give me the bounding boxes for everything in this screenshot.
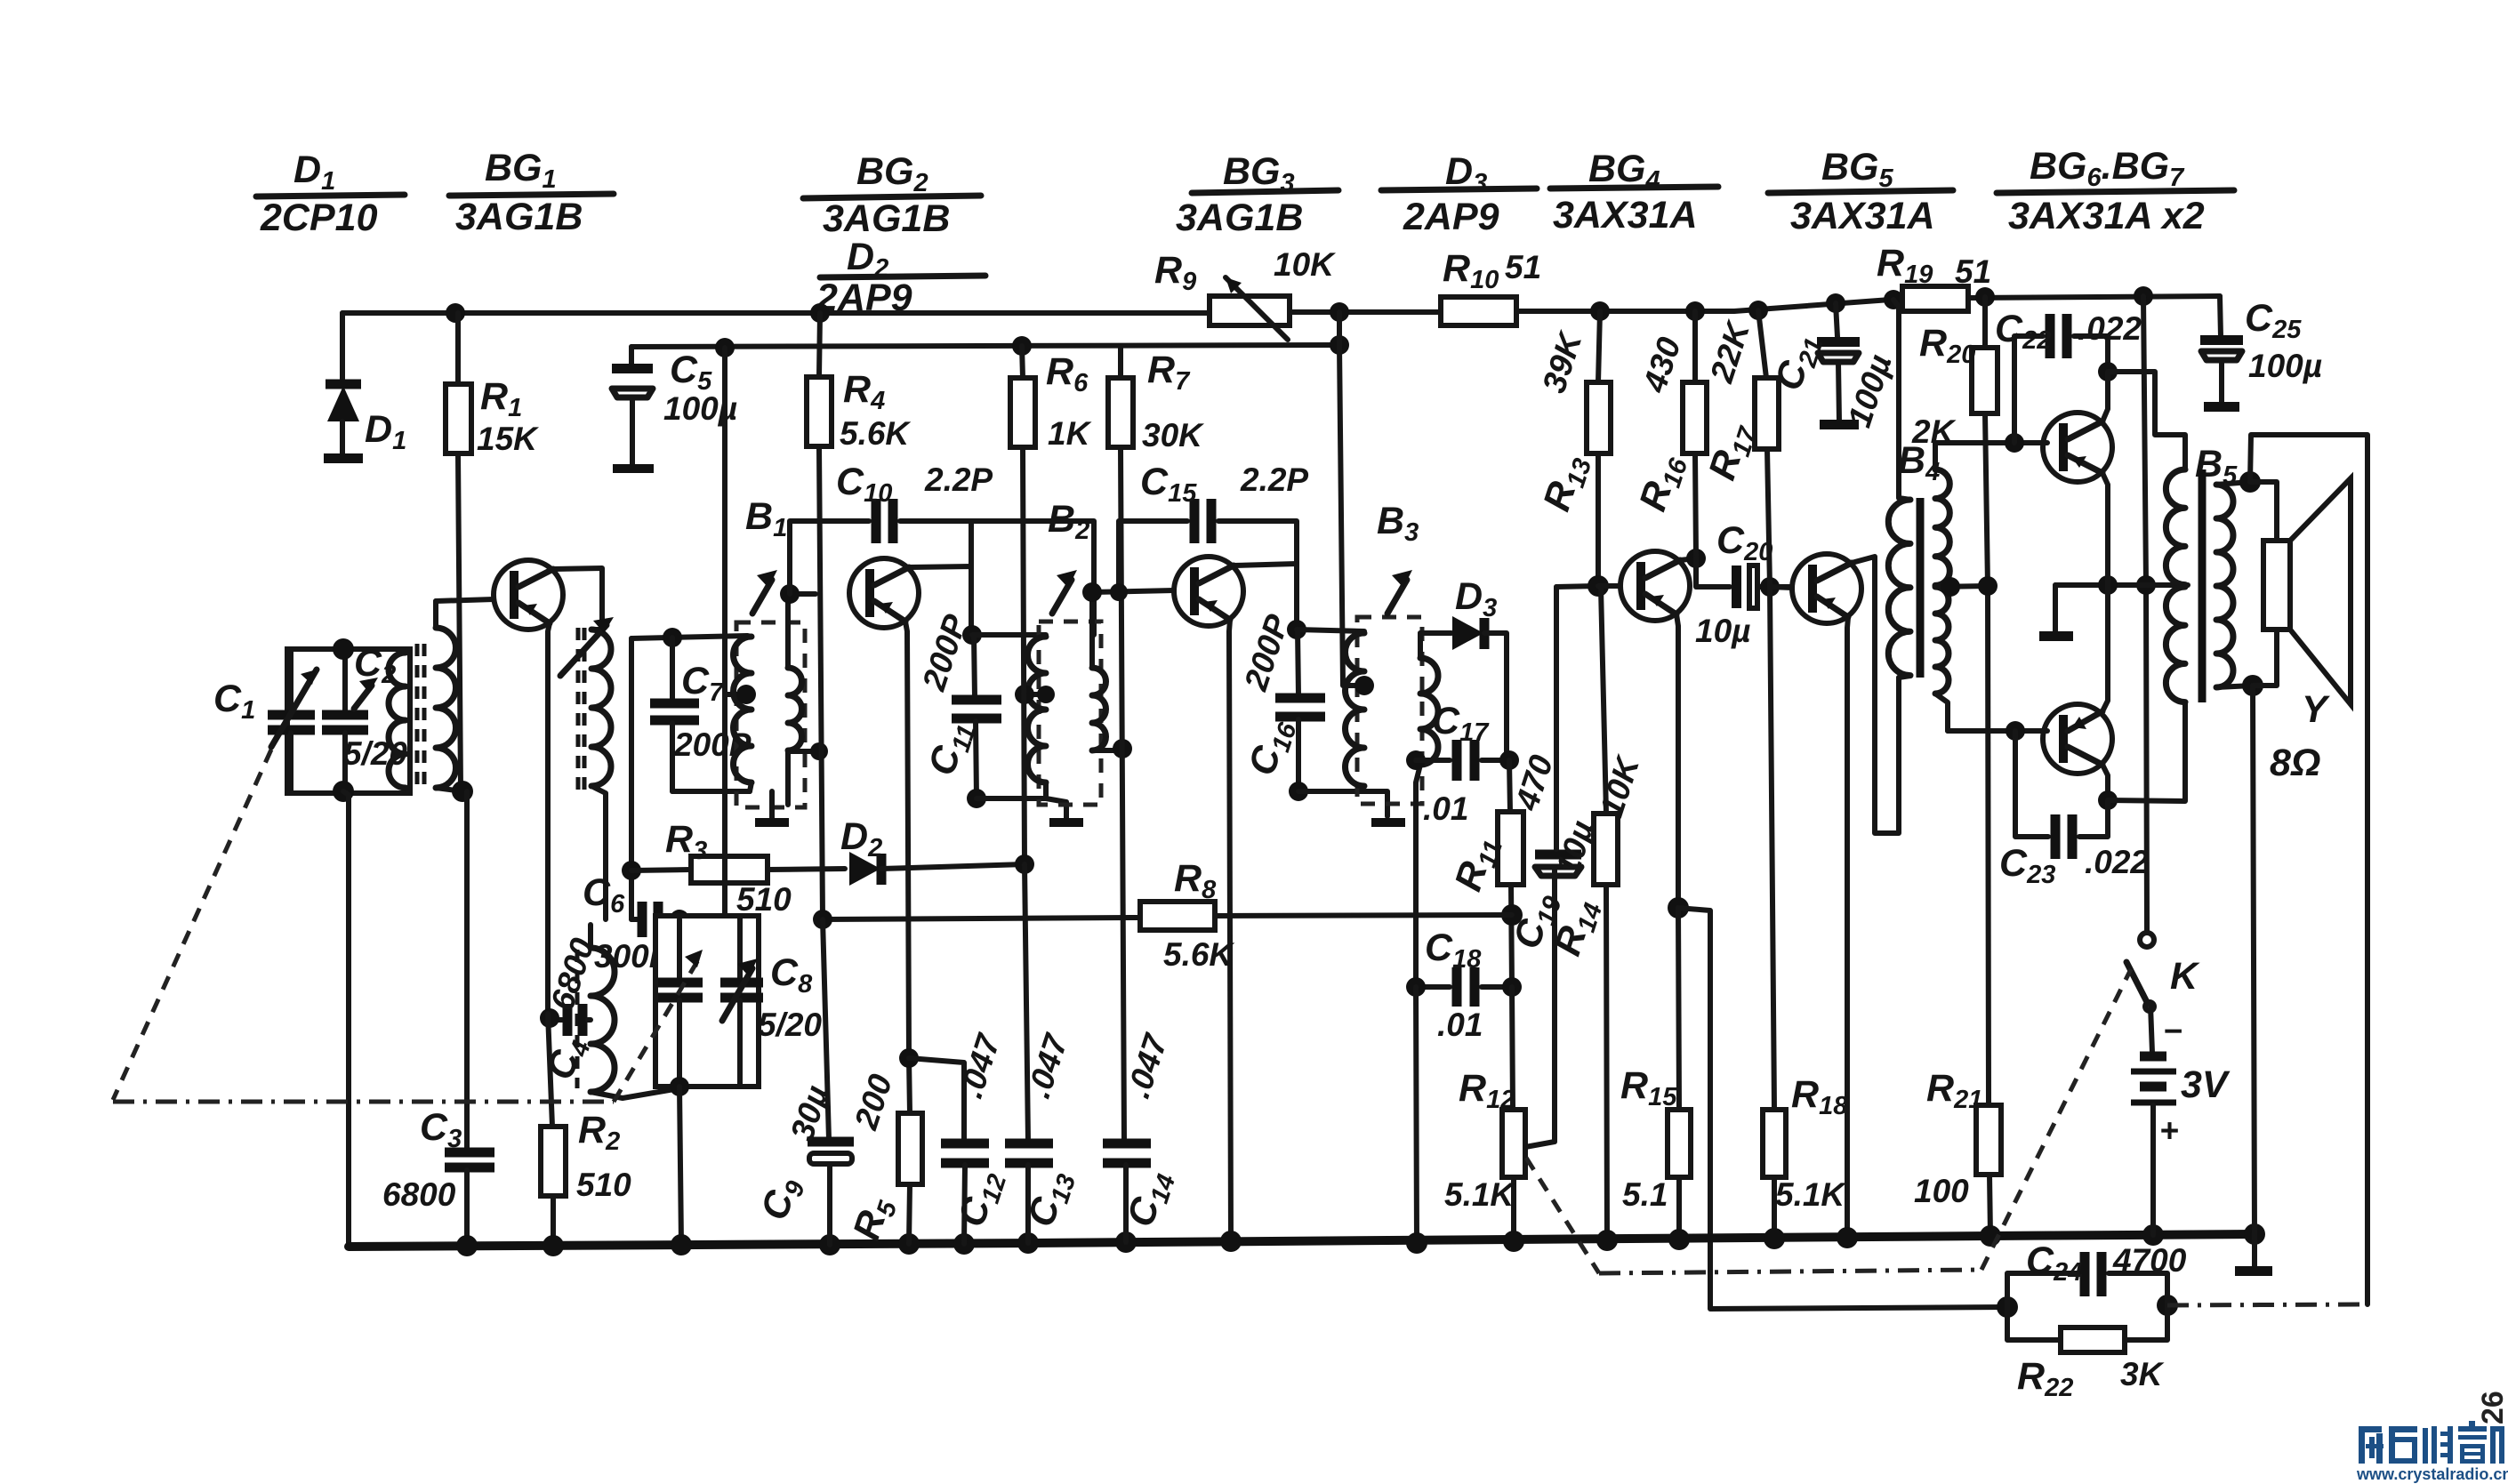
node bus battery <box>2142 1224 2164 1246</box>
svg-text:2.2P: 2.2P <box>1240 461 1308 498</box>
variable capacitor C1 <box>213 649 317 793</box>
node rail2-R6 <box>1012 336 1032 356</box>
wire down from C7 rail to R3 and C6 <box>629 638 634 919</box>
node bus R14 <box>1596 1230 1618 1251</box>
svg-text:5.1: 5.1 <box>1622 1176 1668 1213</box>
node D2 right <box>1015 854 1034 874</box>
resistor R18 <box>1763 587 1848 1239</box>
diode D3 <box>1420 575 1507 755</box>
node C18 left <box>1406 977 1426 997</box>
wire gang bottom to ground bus <box>343 791 349 1245</box>
node rail2 right end <box>1330 335 1349 355</box>
wire to B2 primary top <box>972 632 1046 638</box>
node B5 secondary top <box>2239 471 2261 493</box>
node bus-R20 <box>1975 287 1995 307</box>
resistor R13 <box>1535 311 1611 586</box>
IF transformer B3 shield box <box>1357 617 1422 804</box>
oscillator coil upper winding <box>591 630 611 919</box>
svg-text:+: + <box>2159 1112 2179 1149</box>
node bus R21 <box>1980 1225 2001 1247</box>
node bus C9 <box>819 1234 840 1255</box>
node gang bottom <box>333 781 354 802</box>
label BG6.BG7/3AX31Ax2 <box>1997 145 2234 237</box>
svg-text:100µ: 100µ <box>2248 348 2322 384</box>
wire C7 bottom to B1 primary bottom <box>672 789 750 794</box>
resistor R14 <box>1546 588 1646 1243</box>
wire collector node to B5 primary top <box>2108 372 2185 469</box>
svg-text:5/20: 5/20 <box>758 1007 822 1043</box>
wire C16 bottom to B3 ground <box>1298 791 1387 816</box>
B3 primary winding <box>1346 633 1365 786</box>
label D1/2CP10 <box>256 148 405 239</box>
capacitor C17 <box>1416 700 1509 827</box>
node B3 tap <box>1354 676 1374 695</box>
wire C11 bottom to B2 ground <box>977 798 1066 820</box>
capacitor C9 (electrolytic) <box>753 919 854 1245</box>
label BG1/3AG1B <box>449 147 614 238</box>
capacitor C16 <box>1237 610 1325 791</box>
oscillator coil core lower <box>575 950 580 1088</box>
node bus R18 <box>1764 1228 1785 1249</box>
node rail2-B1 feed <box>715 338 735 357</box>
node BG6 collector <box>2098 362 2118 381</box>
svg-text:10K: 10K <box>1274 246 1336 283</box>
node bus-R13 <box>1590 301 1610 321</box>
svg-text:BG6.BG7: BG6.BG7 <box>2030 145 2185 192</box>
node B1 primary tap <box>736 685 756 704</box>
wire bus feed down to emitter rail and switch <box>2143 296 2147 932</box>
svg-text:6800: 6800 <box>382 1176 456 1213</box>
wire R1 to antenna secondary bottom <box>458 453 462 791</box>
resistor R3 <box>631 818 845 918</box>
node B1 sec bottom R4col <box>810 742 828 760</box>
svg-text:15K: 15K <box>477 421 539 457</box>
transistor BG5 <box>1770 554 1861 623</box>
capacitor C23 <box>1999 731 2149 889</box>
node BG6 base <box>2005 433 2024 453</box>
switch K <box>2126 933 2200 1011</box>
svg-text:3AG1B: 3AG1B <box>1176 197 1303 239</box>
wire BG4 emitter <box>1676 614 1678 908</box>
resistor R20 <box>1911 297 1998 586</box>
resistor R7 <box>1108 347 1204 1142</box>
dash link volume switch <box>1526 1158 1599 1273</box>
node bus-C21 <box>1826 293 1845 313</box>
resistor R17 <box>1700 310 1779 587</box>
node C18 right <box>1502 977 1522 997</box>
svg-text:K: K <box>2170 955 2200 998</box>
node bus BG5 emitter <box>1837 1227 1858 1248</box>
B4 primary winding <box>1888 300 1910 678</box>
B5 primary winding <box>2166 469 2185 702</box>
node BG4 collector <box>1686 549 1706 568</box>
battery 3V <box>2131 1006 2231 1235</box>
svg-text:2CP10: 2CP10 <box>260 197 378 239</box>
node bus C14 <box>1115 1231 1137 1253</box>
label BG3/3AG1B <box>1176 150 1338 239</box>
node C17 left <box>1406 750 1426 770</box>
wire BG5 collector to B4 primary bottom <box>1852 557 1899 833</box>
node bus trimmer <box>671 1234 692 1255</box>
resistor R11 <box>1447 750 1560 987</box>
resistor R6 <box>1010 346 1092 864</box>
capacitor C4 <box>539 934 601 1087</box>
node C4 left <box>540 1008 559 1028</box>
wire B1 secondary bottom to R4 column <box>788 749 819 754</box>
wire BG6 emitter <box>2102 473 2108 585</box>
capacitor C6 <box>583 871 678 975</box>
transistor BG1 <box>494 560 563 630</box>
node bus-B4 <box>1884 290 1903 309</box>
svg-text:3AX31A: 3AX31A <box>1790 195 1935 237</box>
B5 secondary winding <box>2216 482 2253 687</box>
node C17 right <box>1499 750 1519 770</box>
node bus-R1 <box>446 303 465 323</box>
node B5 secondary bottom <box>2242 675 2263 696</box>
svg-text:Y: Y <box>2302 688 2330 731</box>
svg-text:5.1K: 5.1K <box>1775 1176 1846 1213</box>
capacitor C3 <box>382 791 494 1245</box>
ground B2 <box>1049 818 1083 827</box>
svg-text:3AX31A: 3AX31A <box>1553 194 1698 237</box>
wire B3 secondary column to ground bus <box>1416 987 1417 1243</box>
node BG6 BG7 emitters <box>2098 575 2118 595</box>
wire BG1 emitter down <box>548 623 550 1014</box>
transistor BG6 <box>2043 413 2112 482</box>
wire trimmer bottom to ground bus <box>679 1087 681 1245</box>
B5 core <box>2199 469 2207 702</box>
svg-text:100: 100 <box>1914 1173 1969 1209</box>
capacitor C25 (electrolytic) <box>2200 296 2322 412</box>
node R8 wire at R4 column <box>813 910 832 929</box>
wire BG7 collector <box>2102 765 2108 800</box>
wire BG4 collector <box>1680 558 1696 560</box>
capacitor C20 (electrolytic coupling) <box>1695 519 1791 649</box>
node bus R5 <box>898 1233 920 1255</box>
wire speaker return loop <box>2250 435 2367 1304</box>
capacitor C10 (neutralizing) <box>790 461 1094 635</box>
resistor R4 <box>807 313 911 919</box>
node B2 tap <box>1037 686 1055 703</box>
wire BG7 emitter <box>2102 585 2108 711</box>
potentiometer R12 (volume) <box>1444 870 1555 1243</box>
node bus right end <box>2244 1223 2265 1245</box>
node C6 right / trimmer top <box>670 910 689 929</box>
svg-text:3K: 3K <box>2120 1356 2165 1392</box>
svg-text:3AX31A x2: 3AX31A x2 <box>2008 195 2205 237</box>
node B4 tap R21 <box>1978 576 1998 596</box>
svg-text:5.1K: 5.1K <box>1444 1176 1515 1213</box>
node bus C3 <box>456 1235 478 1256</box>
wire B5 secondary bottom to bus <box>2253 686 2255 1234</box>
node R5 top <box>899 1048 919 1068</box>
ground B1 <box>755 791 789 827</box>
node bus-R9R10 <box>1330 302 1349 322</box>
wire BG3 base <box>1092 590 1174 592</box>
diode D2 <box>840 815 1025 886</box>
transistor BG7 <box>2043 704 2112 774</box>
B2 tuning arrow <box>1052 570 1077 614</box>
capacitor C13 <box>1005 1028 1081 1243</box>
oscillator trimmer box with C8 <box>655 916 759 1087</box>
wire rail2 feed to B3 tap <box>1339 345 1364 686</box>
antenna coil secondary <box>436 601 462 791</box>
node bus R12 <box>1503 1231 1524 1252</box>
dash link C24 to speaker loop <box>2167 1304 2367 1305</box>
wire B4 secondary center tap <box>1935 586 1988 587</box>
wire to B3 primary top <box>1297 630 1364 631</box>
svg-text:51: 51 <box>1505 249 1541 285</box>
capacitor C15 (neutralizing) <box>1119 461 1308 630</box>
node bus B3 column <box>1406 1232 1427 1254</box>
node bus-R4 <box>810 303 830 323</box>
wire C19 to BG4 base <box>1556 586 1598 587</box>
svg-text:30K: 30K <box>1142 417 1204 453</box>
node C11 top <box>962 625 982 645</box>
node trimmer bottom <box>670 1077 689 1096</box>
node C16 bottom <box>1289 782 1308 801</box>
node bus-R17 <box>1748 301 1768 320</box>
svg-text:2.2P: 2.2P <box>924 461 993 498</box>
wire BG6 base from B4 secondary top <box>1935 443 2047 469</box>
label D3/2AP9 <box>1381 150 1537 238</box>
wire rail2 to B1 primary tap <box>725 692 746 697</box>
wire BG7 base <box>1948 728 2047 734</box>
wire BG2 collector <box>909 566 971 635</box>
resistor R22 <box>2007 1305 2167 1402</box>
capacitor C19 (electrolytic, series to BG4 base) <box>1506 587 1601 955</box>
node C24 right <box>2157 1295 2178 1316</box>
oscillator coil core <box>576 628 581 790</box>
node BG3 base <box>1082 582 1102 602</box>
node C24 left <box>1997 1296 2018 1318</box>
wire BG6 collector <box>2102 372 2108 421</box>
svg-text:510: 510 <box>736 881 792 918</box>
node BG2 base <box>780 584 800 604</box>
svg-text:510: 510 <box>576 1167 631 1203</box>
oscillator coil tuning arrow <box>560 617 614 676</box>
wire emitter node to battery return <box>1678 908 2007 1309</box>
capacitor C11 <box>915 610 1001 798</box>
wire feed to B1 tap and trimmer box <box>722 348 727 916</box>
node BG4 emitter / R15 <box>1668 897 1689 918</box>
B4 secondary winding <box>1935 443 1949 731</box>
label BG4/3AX31A <box>1550 148 1718 237</box>
svg-text:5.6K: 5.6K <box>840 415 911 452</box>
node C11 bottom <box>967 789 986 808</box>
diode D1 (2CP10) <box>324 313 406 463</box>
wire ground bus <box>349 1234 2255 1247</box>
trimmer capacitor C8 <box>720 916 822 1087</box>
wire second rail y=390 <box>631 345 1339 347</box>
node B2 sec bottom <box>1113 739 1132 758</box>
resistor R15 <box>1620 908 1691 1241</box>
svg-text:4700: 4700 <box>2112 1242 2187 1279</box>
node BG7 collector <box>2098 790 2118 810</box>
capacitor C14 <box>1103 1028 1181 1242</box>
resistor R5 <box>845 1058 922 1247</box>
svg-text:.022: .022 <box>2085 844 2149 880</box>
B4 core <box>1917 498 1925 678</box>
capacitor C21 (electrolytic to ground) <box>1767 303 1899 431</box>
svg-text:3AG1B: 3AG1B <box>455 196 583 238</box>
node C7 top <box>663 628 682 647</box>
node C15 base corner <box>1110 583 1128 601</box>
resistor R19 <box>1877 242 1991 311</box>
B3 tuning arrow <box>1387 570 1412 614</box>
antenna coil core <box>415 644 420 786</box>
trimmer cap osc section <box>658 919 703 1087</box>
svg-text:.01: .01 <box>1423 790 1468 827</box>
svg-text:10µ: 10µ <box>1695 613 1750 649</box>
node bus-B5 feed <box>2134 286 2153 306</box>
capacitor C7 <box>650 638 752 791</box>
node BG5 base <box>1760 577 1780 597</box>
capacitor C24 <box>2007 1239 2187 1307</box>
node BG7 base <box>2006 721 2025 741</box>
wire bus to rail2 link <box>1337 312 1342 345</box>
dash link tuning gang <box>113 750 271 1100</box>
capacitor C5 (electrolytic to ground) <box>612 347 737 473</box>
wire BG2 emitter to R5 <box>905 622 909 1058</box>
trimmer capacitor C2 <box>322 642 407 793</box>
transistor BG4 <box>1598 551 1690 621</box>
node R3 left <box>622 861 641 880</box>
node bus C13 <box>1017 1232 1039 1254</box>
ground stub on emitter rail <box>2039 585 2073 641</box>
wire BG3 collector <box>1234 564 1297 630</box>
resistor R1 <box>446 313 539 457</box>
wire R6 column to B2 tap <box>1025 692 1046 697</box>
node bus R2 <box>543 1235 564 1256</box>
speaker Y <box>2250 478 2351 784</box>
node C16 top <box>1287 620 1306 639</box>
svg-text:51: 51 <box>1955 253 1991 290</box>
label BG5/3AX31A <box>1768 146 1953 237</box>
B1 primary winding <box>733 636 752 791</box>
capacitor C18 <box>1416 926 1512 1043</box>
node BG4 base <box>1588 575 1609 597</box>
ground B3 <box>1371 818 1405 827</box>
svg-text:3AG1B: 3AG1B <box>823 197 950 240</box>
node gang top <box>333 638 354 660</box>
resistor R21 <box>1914 586 2001 1236</box>
IF transformer B2 shield box <box>1039 622 1101 805</box>
oscillator coil lower winding <box>591 925 679 1098</box>
wire BG3 emitter down <box>1229 620 1231 1241</box>
B2 secondary winding <box>1092 594 1122 750</box>
wire collector node to B5 primary bottom <box>2108 702 2185 801</box>
wire BG5 emitter down to ground bus <box>1847 617 1848 1238</box>
svg-text:3V: 3V <box>2181 1063 2231 1106</box>
wire BG2 base <box>788 594 816 624</box>
tuning gang C1/C2 box <box>287 649 410 793</box>
wire emitter rail <box>2055 582 2188 588</box>
node B4 tap <box>1941 577 1960 597</box>
node R11 bottom / R8 wire <box>1501 904 1523 926</box>
node antenna secondary bottom <box>452 781 473 802</box>
resistor R2 <box>541 1014 631 1245</box>
resistor R9 (potentiometer on bus) <box>1154 246 1336 340</box>
resistor R16 <box>1631 311 1707 558</box>
svg-text:2AP9: 2AP9 <box>1403 196 1499 238</box>
node bus BG3 emitter <box>1220 1231 1242 1252</box>
node bus-R16 <box>1685 301 1705 321</box>
wire R6 column to C13 <box>1025 864 1028 1142</box>
B2 primary winding <box>1028 637 1047 798</box>
B1 secondary winding <box>788 622 802 805</box>
transistor BG2 <box>849 558 919 628</box>
antenna coil B primary <box>389 649 410 791</box>
svg-text:26: 26 <box>2476 1391 2508 1424</box>
svg-text:−: − <box>2163 1013 2182 1049</box>
B3 secondary winding <box>1416 633 1438 987</box>
capacitor C22 <box>1995 308 2142 443</box>
svg-text:5.6K: 5.6K <box>1163 936 1234 973</box>
wire top supply bus <box>342 310 1210 316</box>
wire BG1 base <box>436 599 494 601</box>
ground chassis bar at bus end <box>2235 1234 2272 1276</box>
node bus C12 <box>953 1233 975 1255</box>
B1 tuning arrow <box>752 570 777 614</box>
node emitter rail switch feed <box>2136 575 2156 595</box>
IF transformer B1 shield box <box>736 622 805 807</box>
transistor BG3 <box>1174 557 1243 626</box>
svg-text:www.crystalradio.cn: www.crystalradio.cn <box>2356 1465 2508 1483</box>
svg-text:1K: 1K <box>1048 415 1092 452</box>
svg-text:.022: .022 <box>2078 310 2142 347</box>
wire C7 top rail <box>631 636 747 638</box>
capacitor C12 <box>909 1028 1012 1244</box>
node bus R15 <box>1668 1229 1690 1250</box>
svg-text:8Ω: 8Ω <box>2270 742 2321 784</box>
resistor R10 <box>1441 247 1541 325</box>
svg-text:.01: .01 <box>1437 1007 1483 1043</box>
resistor R8 with long AGC wire <box>823 857 1512 973</box>
watermark crystalradio <box>2356 1421 2508 1483</box>
node B2 tap left <box>1015 685 1034 704</box>
label BG2/3AG1B over D2/2AP9 <box>803 150 985 319</box>
wire BG1 collector to osc coil <box>553 568 602 630</box>
